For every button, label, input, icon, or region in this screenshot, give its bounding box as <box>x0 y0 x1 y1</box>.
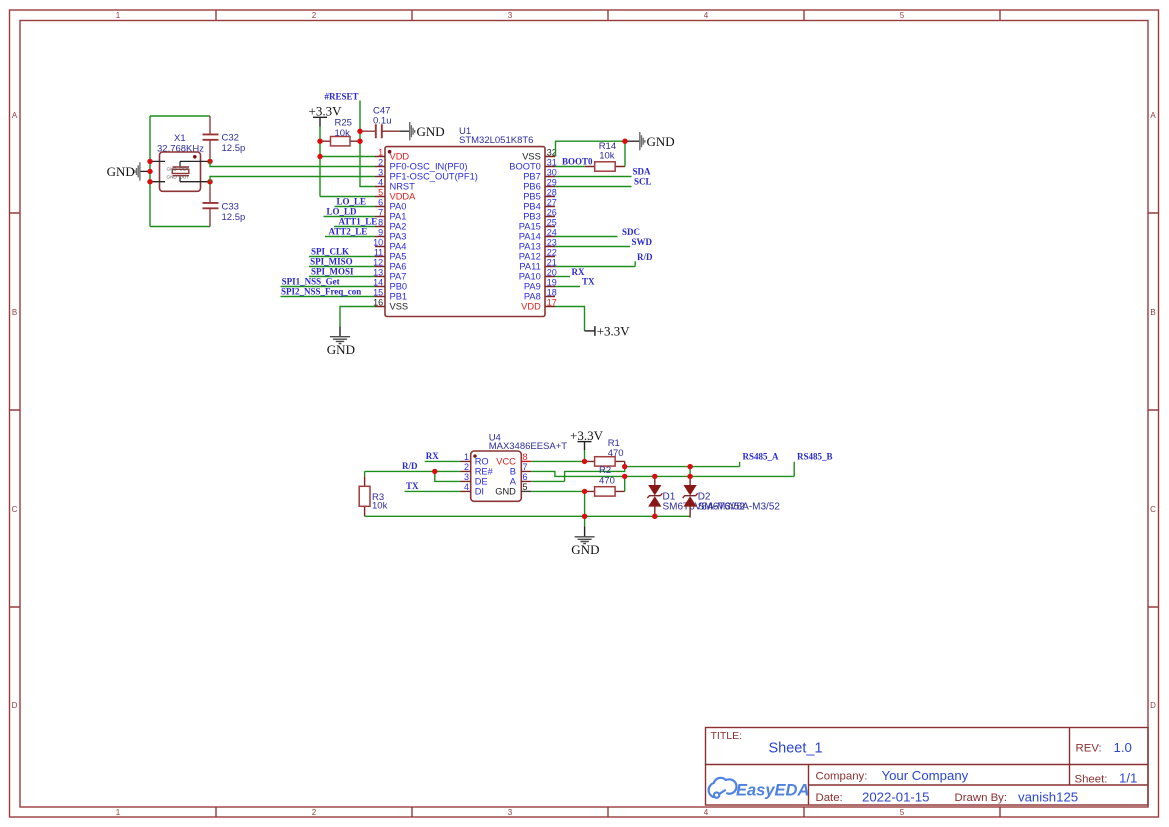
svg-text:PA5: PA5 <box>390 252 407 262</box>
wire ATT2_LE pin9 <box>325 236 375 238</box>
wire to pin1 VDD <box>320 156 375 158</box>
svg-text:1: 1 <box>116 11 121 20</box>
IC U4 MAX3486EESA+T <box>461 433 568 502</box>
svg-text:5: 5 <box>900 11 905 20</box>
svg-text:MAX3486EESA+T: MAX3486EESA+T <box>489 441 568 452</box>
ground flag right of pin32 <box>625 132 675 150</box>
svg-text:12.5p: 12.5p <box>222 212 246 223</box>
svg-text:VDDA: VDDA <box>390 192 417 202</box>
junction dots crystal <box>147 159 212 185</box>
svg-text:1: 1 <box>116 808 121 817</box>
+3.3V power flag lower <box>570 428 604 450</box>
crystal X1 <box>150 133 210 191</box>
U4 pin5 lead dark <box>521 490 531 492</box>
U4 right pin names <box>495 457 516 497</box>
svg-text:VCC: VCC <box>496 457 516 467</box>
svg-text:10k: 10k <box>372 501 388 512</box>
svg-text:BOOT0: BOOT0 <box>509 162 541 172</box>
wire LO_LE pin6 <box>335 206 376 208</box>
svg-text:RO: RO <box>475 457 489 467</box>
resistor R2 <box>585 465 625 496</box>
wire pin32 VSS to GND <box>556 141 626 156</box>
wire crystal loop top <box>150 115 210 117</box>
svg-text:32.768KHz: 32.768KHz <box>157 144 204 155</box>
svg-text:PA1: PA1 <box>390 212 407 222</box>
svg-text:B: B <box>1150 308 1155 317</box>
svg-text:PB7: PB7 <box>523 172 541 182</box>
wire RX to U4 pin1 <box>425 460 461 462</box>
svg-text:5: 5 <box>523 482 528 492</box>
svg-text:PF0-OSC_IN(PF0): PF0-OSC_IN(PF0) <box>390 162 468 172</box>
wire SPI_MISO pin12 <box>309 266 375 268</box>
svg-text:3: 3 <box>464 472 469 482</box>
svg-text:+3.3V: +3.3V <box>597 324 631 339</box>
svg-text:470: 470 <box>608 448 624 459</box>
row ticks right <box>1148 213 1159 607</box>
svg-text:PA10: PA10 <box>519 272 541 282</box>
wire crystal to PF0 pin2 <box>210 161 375 166</box>
svg-text:SPI2_NSS_Freq_con: SPI2_NSS_Freq_con <box>281 286 361 296</box>
wire SCL pin29 <box>555 186 632 188</box>
svg-text:RX: RX <box>426 451 439 461</box>
wire LO_LD pin7 <box>324 216 376 218</box>
svg-text:PA4: PA4 <box>390 242 407 252</box>
svg-text:VSS: VSS <box>390 302 409 312</box>
svg-text:GND: GND <box>107 164 135 179</box>
U4 left pin leads <box>461 461 532 491</box>
svg-text:6: 6 <box>378 197 383 207</box>
svg-text:GND: GND <box>647 134 675 149</box>
svg-text:PA13: PA13 <box>519 242 541 252</box>
svg-text:R2: R2 <box>599 465 611 476</box>
capacitor C33 <box>203 182 246 227</box>
svg-text:Drawn By:: Drawn By: <box>955 792 1008 804</box>
svg-text:PF1-OSC_OUT(PF1): PF1-OSC_OUT(PF1) <box>390 172 478 182</box>
svg-text:SWD: SWD <box>632 237 653 247</box>
left side net stub wires <box>281 207 376 297</box>
svg-text:+3.3V: +3.3V <box>309 104 343 119</box>
svg-text:C: C <box>1150 505 1156 514</box>
svg-text:C33: C33 <box>222 202 239 213</box>
ground flag lower <box>571 516 599 557</box>
svg-text:3: 3 <box>508 808 513 817</box>
svg-text:Date:: Date: <box>816 792 843 804</box>
column ticks top <box>216 10 1000 21</box>
svg-text:VSS: VSS <box>522 152 541 162</box>
svg-text:LO_LD: LO_LD <box>326 206 357 216</box>
svg-text:0.1u: 0.1u <box>373 115 392 126</box>
wire SPI_CLK pin11 <box>309 256 375 258</box>
wire SPI2_NSS_Freq_con pin15 <box>281 296 376 298</box>
svg-text:GND: GND <box>571 542 599 557</box>
svg-text:470: 470 <box>599 476 615 487</box>
svg-text:B: B <box>510 467 516 477</box>
svg-text:8: 8 <box>523 452 528 462</box>
left net labels <box>281 196 377 296</box>
wire R/D pin21 <box>555 261 635 266</box>
ground flag near C47 <box>399 122 444 140</box>
wire SPI_MOSI pin13 <box>309 276 375 278</box>
svg-text:PA7: PA7 <box>390 272 407 282</box>
svg-text:Sheet_1: Sheet_1 <box>769 741 823 757</box>
svg-text:TX: TX <box>582 277 595 287</box>
wire +3.3V vertical to VDD/VDDA <box>319 127 321 197</box>
U1 left pin names <box>390 152 478 312</box>
svg-text:PA12: PA12 <box>519 252 541 262</box>
wire R14 to GND net <box>624 141 626 166</box>
svg-text:SPI_MOSI: SPI_MOSI <box>311 266 354 276</box>
junction dot pin32 gnd <box>622 139 627 144</box>
svg-text:RE#: RE# <box>475 467 494 477</box>
wire U4 pin5 GND row <box>531 490 584 492</box>
svg-text:R25: R25 <box>335 118 352 129</box>
svg-text:2: 2 <box>464 462 469 472</box>
svg-text:BOOT0: BOOT0 <box>562 156 593 166</box>
svg-text:PB6: PB6 <box>523 182 541 192</box>
svg-text:5: 5 <box>378 187 383 197</box>
IC U1 STM32L051K8T6 <box>373 126 557 317</box>
svg-text:REV:: REV: <box>1076 743 1102 755</box>
resistor R25 <box>321 118 360 146</box>
wire crystal loop bottom <box>150 226 210 228</box>
svg-text:GND OE#: GND OE# <box>167 166 189 171</box>
wire SDA pin30 <box>555 176 632 178</box>
wire #RESET vertical to NRST <box>360 101 375 187</box>
svg-text:RX: RX <box>572 267 585 277</box>
svg-text:PA0: PA0 <box>390 202 407 212</box>
wire crystal loop left vertical <box>149 116 151 227</box>
svg-text:C: C <box>12 505 18 514</box>
svg-text:ATT2_LE: ATT2_LE <box>328 226 367 236</box>
TVS diode D1 <box>647 476 745 516</box>
svg-text:D: D <box>1150 701 1156 710</box>
svg-text:4: 4 <box>704 11 709 20</box>
ground flag below U1 <box>327 327 355 357</box>
svg-text:1: 1 <box>378 147 383 157</box>
svg-text:A: A <box>12 111 18 120</box>
svg-text:RS485_B: RS485_B <box>797 452 833 462</box>
svg-text:1: 1 <box>464 452 469 462</box>
EasyEDA logo cloud <box>709 778 737 798</box>
svg-text:R/D: R/D <box>402 461 418 471</box>
svg-text:2022-01-15: 2022-01-15 <box>862 790 929 805</box>
wire U4 pin7 B to RS485_B row <box>531 462 794 477</box>
svg-text:PB1: PB1 <box>390 292 408 302</box>
svg-text:Sheet:: Sheet: <box>1075 774 1108 786</box>
svg-text:5: 5 <box>900 808 905 817</box>
resistor R1 <box>585 438 625 466</box>
svg-text:PB5: PB5 <box>523 192 541 202</box>
svg-text:7: 7 <box>378 207 383 217</box>
row ticks left <box>10 213 21 607</box>
svg-text:SPI_MISO: SPI_MISO <box>310 256 353 266</box>
svg-text:6: 6 <box>523 472 528 482</box>
wire TX to U4 pin4 <box>405 490 461 492</box>
svg-text:2: 2 <box>378 157 383 167</box>
wire to pin5 VDDA <box>320 196 375 198</box>
svg-text:SPI_CLK: SPI_CLK <box>311 246 349 256</box>
svg-text:EasyEDA: EasyEDA <box>736 782 809 800</box>
TITLE BLOCK <box>706 728 1149 806</box>
wire GND node vertical <box>584 491 586 516</box>
svg-text:12.5p: 12.5p <box>222 143 246 154</box>
junction dot RE/DE <box>432 469 437 474</box>
svg-text:GND: GND <box>327 342 355 357</box>
wire ATT1_LE pin8 <box>334 226 375 228</box>
svg-text:9: 9 <box>378 227 383 237</box>
capacitor C32 <box>203 116 246 161</box>
U1 right pin leads 32-17 <box>545 157 555 307</box>
svg-text:PA3: PA3 <box>390 232 407 242</box>
svg-text:28: 28 <box>547 187 557 197</box>
wire pin17 VDD to +3.3V <box>555 307 585 331</box>
ground flag near crystal <box>107 162 150 180</box>
svg-text:STM32L051K8T6: STM32L051K8T6 <box>459 135 533 146</box>
svg-text:2: 2 <box>312 808 317 817</box>
svg-text:4: 4 <box>378 177 383 187</box>
wire RX pin20 <box>555 276 570 278</box>
column ticks bottom <box>216 807 1000 817</box>
svg-text:SPI1_NSS_Get: SPI1_NSS_Get <box>282 276 340 286</box>
svg-text:PA15: PA15 <box>519 222 541 232</box>
svg-text:PA6: PA6 <box>390 262 407 272</box>
svg-text:PA2: PA2 <box>390 222 407 232</box>
svg-text:25: 25 <box>547 217 557 227</box>
TVS diode D2 <box>683 476 781 517</box>
svg-text:1/1: 1/1 <box>1119 771 1137 786</box>
svg-text:26: 26 <box>547 207 557 217</box>
wire RS485_A row <box>625 462 740 467</box>
svg-text:PB3: PB3 <box>523 212 541 222</box>
wire pin16 VSS to ground <box>340 307 375 327</box>
svg-text:SDA: SDA <box>633 166 652 176</box>
svg-text:VDD: VDD <box>390 152 410 162</box>
U4 pin8 lead red <box>521 460 531 462</box>
svg-text:GND: GND <box>495 487 516 497</box>
svg-text:B: B <box>12 308 17 317</box>
U1 left pin numbers <box>373 147 383 307</box>
wire D2 A-B stub <box>689 467 691 477</box>
U1 right pin numbers <box>547 147 557 307</box>
+3.3V power flag top <box>309 104 343 127</box>
svg-text:8: 8 <box>378 217 383 227</box>
wire lower ground rail <box>365 515 690 517</box>
wire A-node jog <box>531 467 624 482</box>
U1 right pin names <box>509 152 541 312</box>
svg-text:4: 4 <box>704 808 709 817</box>
svg-text:TITLE:: TITLE: <box>711 730 743 742</box>
svg-text:SM6T6V8A-M3/52: SM6T6V8A-M3/52 <box>698 501 781 512</box>
U4 right pin leads <box>521 471 531 481</box>
svg-text:RS485_A: RS485_A <box>743 452 780 462</box>
svg-text:Your Company: Your Company <box>882 768 969 783</box>
resistor R14 <box>585 141 625 171</box>
svg-text:PA14: PA14 <box>519 232 541 242</box>
svg-text:PA11: PA11 <box>519 262 540 272</box>
svg-text:vanish125: vanish125 <box>1018 790 1078 805</box>
wire SPI1_NSS_Get pin14 <box>281 286 376 288</box>
wire SWD pin23 <box>555 246 630 248</box>
svg-text:18: 18 <box>547 287 557 297</box>
svg-text:10: 10 <box>373 237 383 247</box>
wire SDC pin24 <box>555 236 618 238</box>
junction dots lower <box>582 459 693 519</box>
svg-text:GND OUT: GND OUT <box>167 174 190 179</box>
svg-text:LO_LE: LO_LE <box>336 196 366 206</box>
svg-text:X1: X1 <box>174 133 186 144</box>
svg-text:NRST: NRST <box>390 182 416 192</box>
svg-text:A: A <box>1150 111 1156 120</box>
svg-text:PB4: PB4 <box>523 202 541 212</box>
svg-text:C32: C32 <box>222 133 239 144</box>
wire BOOT0 pin31 <box>555 166 585 168</box>
svg-text:ATT1_LE: ATT1_LE <box>338 216 377 226</box>
svg-text:DI: DI <box>475 487 484 497</box>
resistor R3 <box>359 471 387 516</box>
svg-text:SDC: SDC <box>622 227 640 237</box>
svg-text:VDD: VDD <box>521 302 541 312</box>
svg-text:GND: GND <box>417 124 445 139</box>
svg-text:2: 2 <box>312 11 317 20</box>
wire TX pin19 <box>555 286 580 288</box>
svg-text:7: 7 <box>523 462 528 472</box>
svg-text:DE: DE <box>475 477 488 487</box>
svg-text:10k: 10k <box>599 150 615 161</box>
svg-text:R/D: R/D <box>637 252 653 262</box>
svg-text:+3.3V: +3.3V <box>570 428 604 443</box>
svg-text:Company:: Company: <box>816 771 868 783</box>
junction dots upper left <box>317 129 362 160</box>
svg-text:D: D <box>12 701 18 710</box>
svg-text:27: 27 <box>547 197 557 207</box>
svg-text:3: 3 <box>378 167 383 177</box>
wire R/D to U4 pin2 and pin3 <box>365 471 461 481</box>
svg-text:11: 11 <box>374 247 383 257</box>
U4 left pin numbers <box>464 452 469 492</box>
svg-text:3: 3 <box>508 11 513 20</box>
capacitor C47 <box>361 106 400 139</box>
svg-text:10k: 10k <box>335 128 351 139</box>
svg-text:PB0: PB0 <box>390 282 408 292</box>
svg-text:TX: TX <box>406 481 419 491</box>
U1 left pin leads 1-16 <box>375 157 555 307</box>
wire crystal to PF1 pin3 <box>210 177 375 182</box>
wire U4 pin8 VCC row <box>531 460 584 462</box>
svg-text:PA8: PA8 <box>524 292 541 302</box>
svg-text:22: 22 <box>547 247 557 257</box>
svg-text:4: 4 <box>464 482 469 492</box>
svg-text:SCL: SCL <box>634 176 652 186</box>
svg-text:#RESET: #RESET <box>325 92 359 102</box>
+3.3V power flag right <box>585 324 631 339</box>
wire +3.3V to VCC node <box>584 450 586 461</box>
svg-text:PA9: PA9 <box>524 282 541 292</box>
svg-text:A: A <box>510 477 517 487</box>
title block outline <box>706 728 1149 806</box>
svg-text:1.0: 1.0 <box>1114 740 1132 755</box>
